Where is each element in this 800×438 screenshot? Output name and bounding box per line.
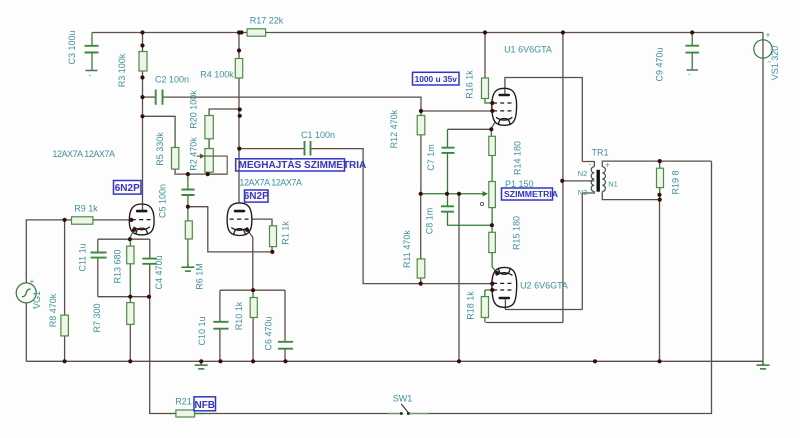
svg-text:R3 100k: R3 100k [117,53,127,87]
svg-text:R13 680: R13 680 [112,249,122,283]
svg-text:-: - [589,160,592,169]
svg-text:R15 180: R15 180 [511,216,521,250]
svg-text:C11 1u: C11 1u [78,243,88,271]
svg-text:-: - [33,302,36,312]
svg-text:-: - [688,70,691,79]
svg-text:R12 470k: R12 470k [389,109,399,148]
svg-text:+: + [766,31,771,40]
svg-text:C4 470u: C4 470u [154,255,164,289]
svg-text:C6 470u: C6 470u [264,316,274,350]
svg-text:C3 100u: C3 100u [67,30,77,64]
svg-text:R4 100k: R4 100k [200,70,234,80]
svg-text:6N2P: 6N2P [244,191,269,202]
svg-text:R16 1k: R16 1k [464,70,474,99]
svg-text:R8 470k: R8 470k [48,293,58,327]
svg-text:-: - [768,57,771,67]
svg-text:R7 300: R7 300 [92,303,102,332]
svg-text:R11 470k: R11 470k [402,230,412,268]
svg-text:R20 100k: R20 100k [189,90,199,129]
svg-text:12AX7A 12AX7A: 12AX7A 12AX7A [239,178,302,188]
svg-text:C10 1u: C10 1u [197,316,207,345]
svg-text:+: + [605,161,610,170]
svg-text:C2 100n: C2 100n [155,75,189,85]
svg-text:12AX7A 12AX7A: 12AX7A 12AX7A [52,149,115,159]
svg-text:SZIMMETRIA: SZIMMETRIA [504,189,559,199]
svg-text:C1 100n: C1 100n [301,130,335,140]
svg-text:-: - [89,71,92,80]
svg-text:R17 22k: R17 22k [250,16,284,26]
svg-text:6N2P: 6N2P [115,183,140,194]
svg-text:R10 1k: R10 1k [234,301,244,330]
svg-text:VS1 320: VS1 320 [770,46,780,81]
svg-text:N1: N1 [608,180,618,189]
svg-text:R6 1M: R6 1M [195,263,205,290]
svg-text:R19 8: R19 8 [671,170,681,194]
svg-text:C5 100n: C5 100n [158,184,168,218]
svg-text:+: + [30,277,35,286]
svg-text:U2 6V6GTA: U2 6V6GTA [520,281,568,291]
svg-text:R14 180: R14 180 [513,141,523,175]
svg-text:SW1: SW1 [393,394,413,404]
svg-text:R9 1k: R9 1k [74,204,98,214]
svg-text:R18 1k: R18 1k [466,291,476,320]
svg-text:N2: N2 [578,169,588,178]
svg-text:C7 1m: C7 1m [426,144,436,171]
svg-text:R21: R21 [175,397,192,407]
svg-text:TR1: TR1 [591,148,608,158]
svg-text:C9 470u: C9 470u [655,47,665,81]
svg-text:C8 1m: C8 1m [424,208,434,235]
svg-text:N3: N3 [578,188,588,197]
svg-text:NFB: NFB [194,400,215,411]
svg-text:MEGHAJTÁS SZIMMETRIA: MEGHAJTÁS SZIMMETRIA [239,158,367,171]
svg-text:R5 330k: R5 330k [155,132,165,166]
svg-text:1000 u 35v: 1000 u 35v [415,74,458,84]
svg-text:R1 1k: R1 1k [281,221,291,245]
svg-text:U1 6V6GTA: U1 6V6GTA [504,45,552,55]
svg-text:R2 470k: R2 470k [189,137,199,171]
